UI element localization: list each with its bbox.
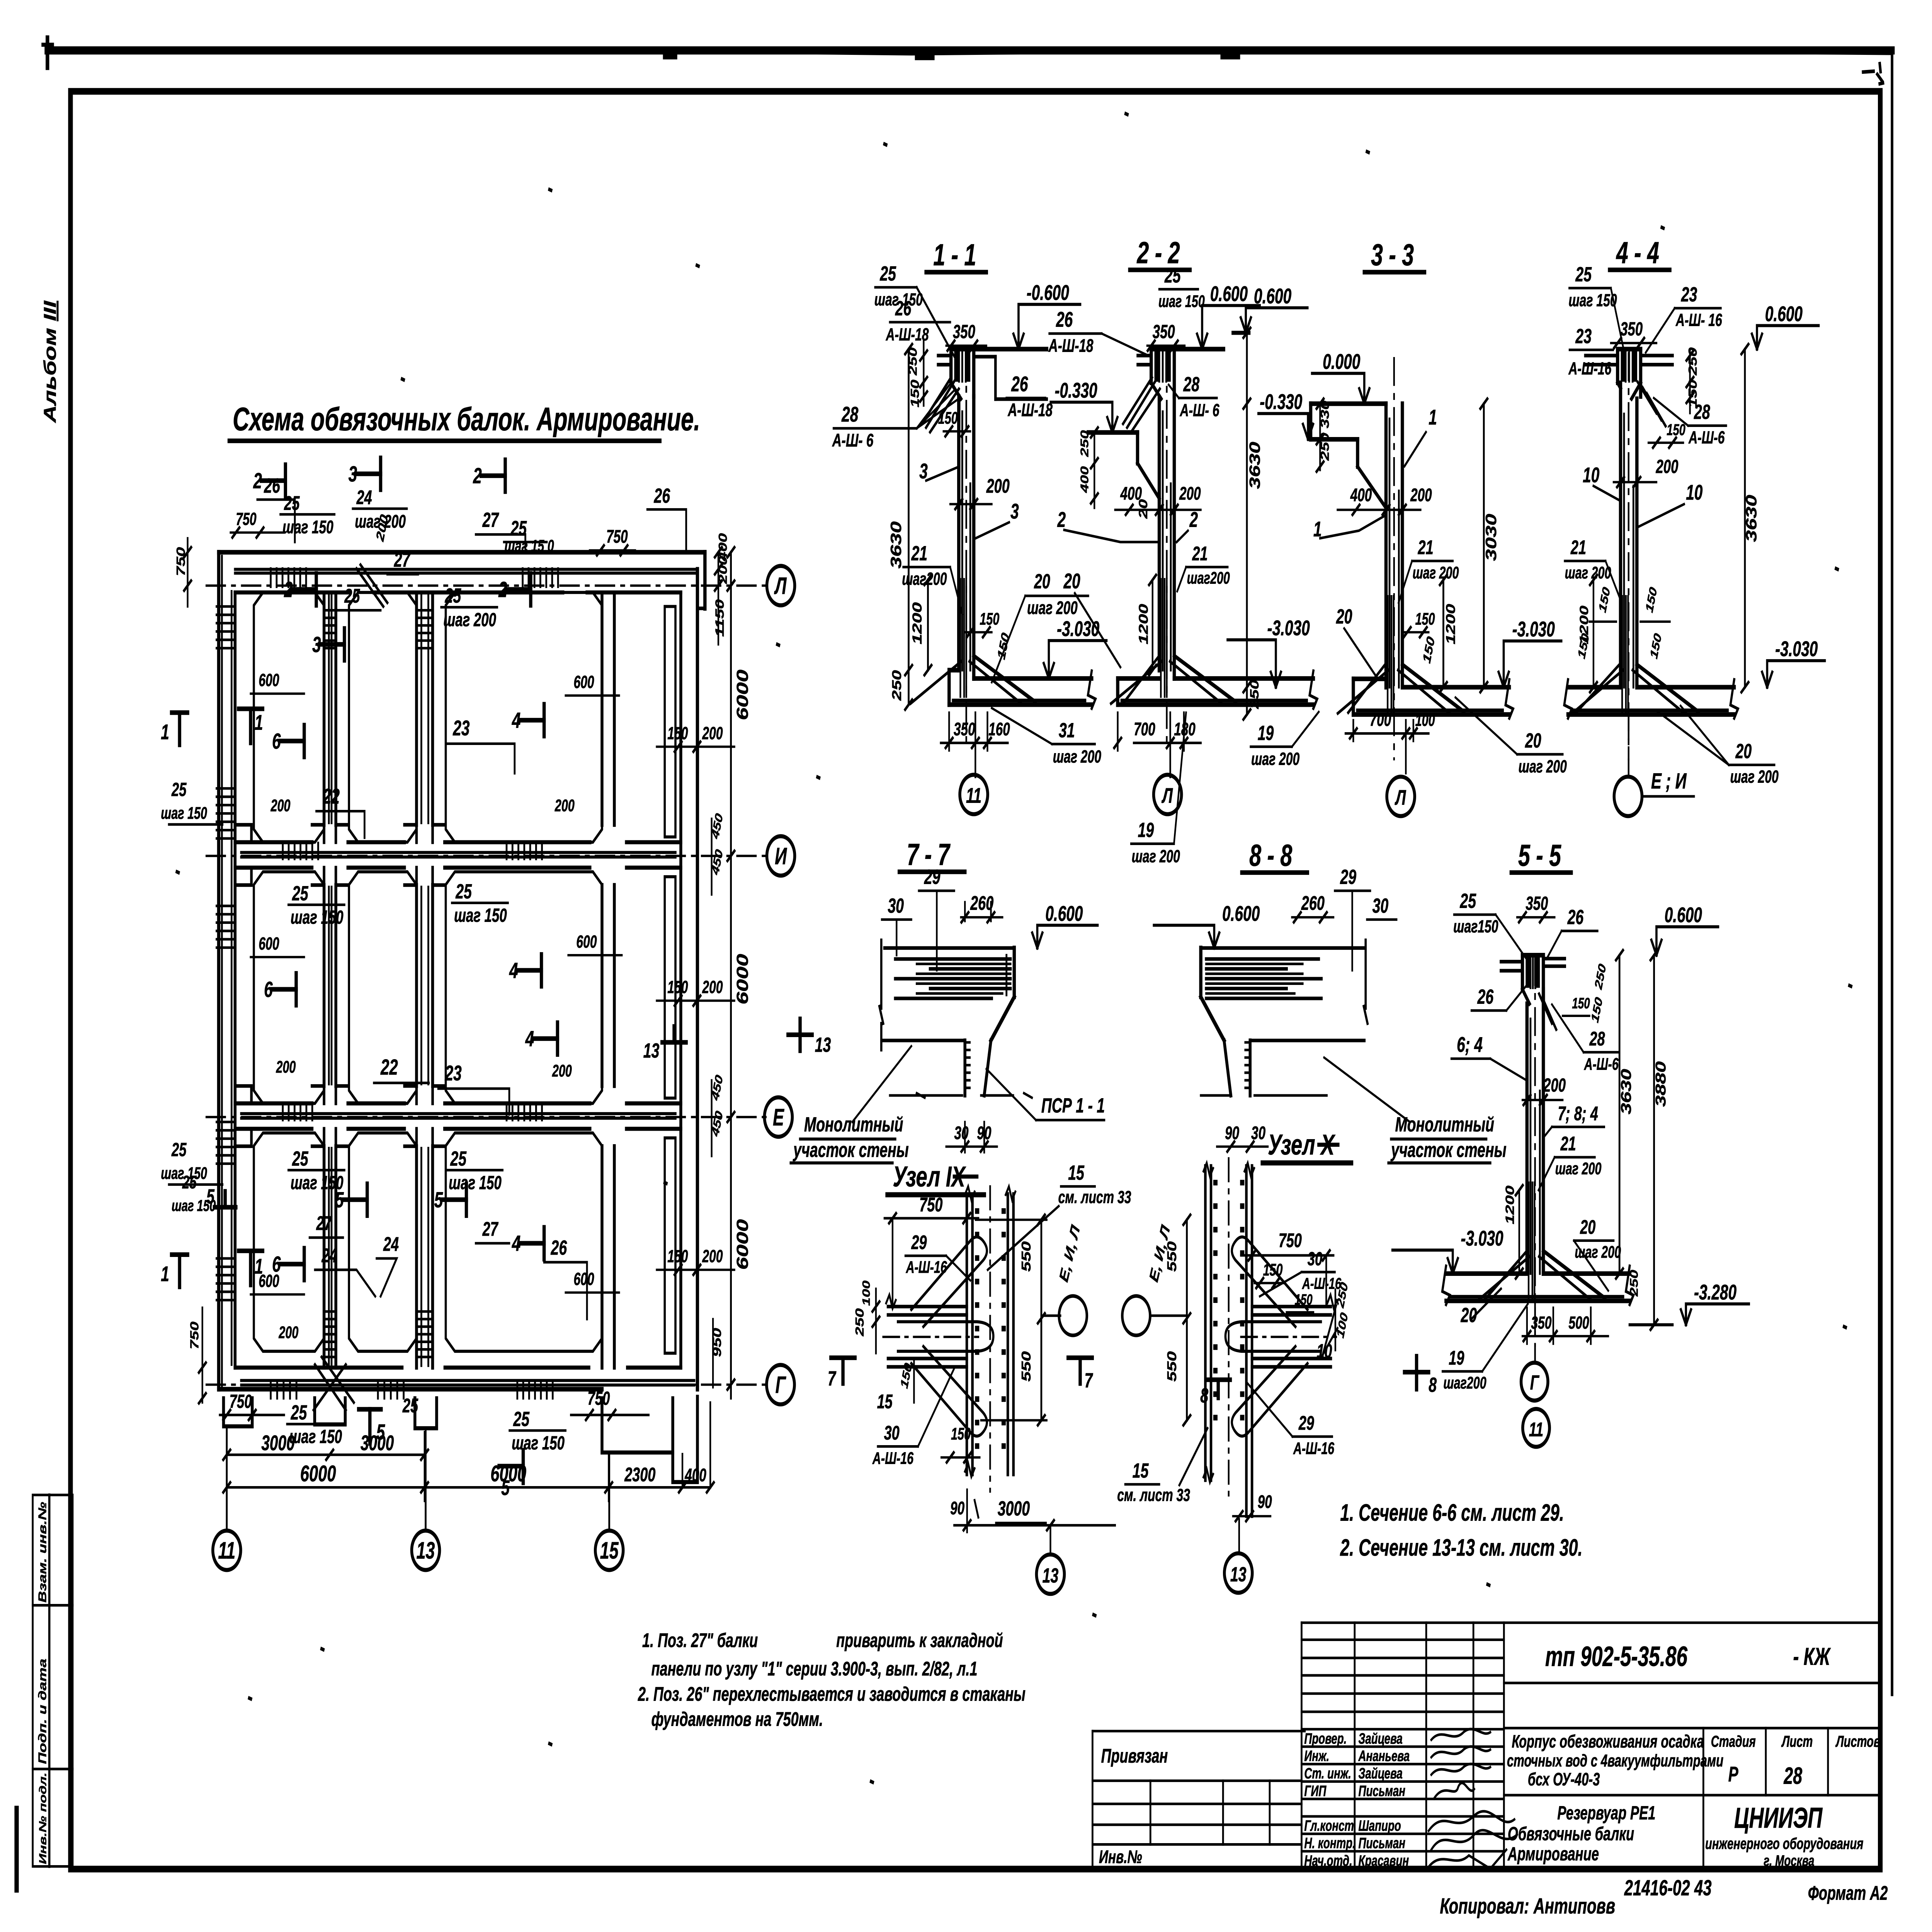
section 4-4 axis circle E I <box>1628 716 1630 777</box>
svg-text:150: 150 <box>908 379 921 407</box>
svg-text:100: 100 <box>860 1281 872 1306</box>
svg-text:Корпус обезвоживания осадка: Корпус обезвоживания осадка <box>1512 1732 1704 1752</box>
svg-text:21: 21 <box>1560 1133 1576 1155</box>
uzel X section marks 8 <box>1206 1380 1230 1398</box>
svg-text:шаг 150: шаг 150 <box>1158 292 1205 310</box>
svg-text:3: 3 <box>312 632 321 657</box>
svg-text:26: 26 <box>895 297 912 320</box>
svg-text:25: 25 <box>1460 889 1477 912</box>
svg-text:0.600: 0.600 <box>1254 284 1291 308</box>
plan outer wall contour <box>219 550 705 554</box>
section 5-5 axis circles <box>1534 1301 1536 1362</box>
svg-text:5: 5 <box>376 1420 385 1445</box>
level mark 0.600 <box>1651 940 1656 955</box>
svg-text:20: 20 <box>1580 1216 1595 1238</box>
rebar splice hatches E band <box>281 1104 284 1120</box>
svg-text:Е ; И: Е ; И <box>1651 769 1687 794</box>
svg-text:ПСР 1 - 1: ПСР 1 - 1 <box>1041 1094 1105 1117</box>
svg-text:29: 29 <box>924 865 940 888</box>
svg-text:А-Ш-16: А-Ш-16 <box>1293 1439 1334 1458</box>
svg-text:1. Сечение 6-6 см. лист 29: 1. Сечение 6-6 см. лист 29. <box>1340 1500 1564 1526</box>
svg-text:25: 25 <box>291 1401 308 1424</box>
svg-text:шаг 150: шаг 150 <box>291 907 344 928</box>
svg-text:150: 150 <box>1415 609 1435 628</box>
svg-text:30: 30 <box>888 894 904 917</box>
svg-text:А-Ш-18: А-Ш-18 <box>1048 335 1094 356</box>
svg-text:1200: 1200 <box>1503 1185 1517 1225</box>
svg-text:1: 1 <box>161 1262 169 1286</box>
uzel X panel strip <box>1205 1166 1211 1480</box>
svg-text:-0.330: -0.330 <box>1055 379 1097 403</box>
svg-text:24: 24 <box>383 1233 399 1255</box>
level mark 0.600 <box>1209 933 1214 948</box>
svg-text:350: 350 <box>954 719 975 739</box>
svg-text:30: 30 <box>1308 1248 1323 1269</box>
svg-text:26: 26 <box>1567 905 1584 929</box>
svg-text:21416-02 43: 21416-02 43 <box>1624 1876 1712 1900</box>
svg-text:Альбом III: Альбом III <box>40 300 60 424</box>
svg-text:750: 750 <box>919 1194 943 1216</box>
level mark 0.000 <box>1359 388 1364 403</box>
section mark 5 <box>367 1409 372 1443</box>
svg-text:2. Поз. 26" перехлестывается: 2. Поз. 26" перехлестывается и заводится… <box>638 1684 1026 1706</box>
level mark -0.330 <box>1303 424 1308 439</box>
svg-text:см. лист 33: см. лист 33 <box>1117 1486 1190 1505</box>
svg-text:Схема обвязочных балок. Армиро: Схема обвязочных балок. Армирование. <box>233 401 700 437</box>
svg-text:550: 550 <box>1019 1241 1034 1272</box>
svg-text:инженерного оборудования: инженерного оборудования <box>1705 1835 1863 1852</box>
svg-text:260: 260 <box>1301 892 1325 914</box>
svg-text:150: 150 <box>1263 1260 1283 1279</box>
svg-text:см. лист 33: см. лист 33 <box>1058 1188 1131 1207</box>
svg-text:150: 150 <box>951 1424 971 1443</box>
svg-text:Л: Л <box>1395 786 1406 810</box>
section mark 2 <box>261 478 285 483</box>
svg-text:26: 26 <box>264 474 280 497</box>
svg-text:шаг150: шаг150 <box>1453 917 1498 937</box>
svg-text:750: 750 <box>606 526 628 547</box>
svg-text:27: 27 <box>394 548 411 571</box>
svg-text:20: 20 <box>1525 729 1541 752</box>
svg-text:31: 31 <box>1059 718 1075 742</box>
svg-text:шаг200: шаг200 <box>1443 1373 1486 1392</box>
svg-text:21: 21 <box>911 541 927 565</box>
svg-text:200: 200 <box>702 724 723 743</box>
svg-text:А-Ш- 16: А-Ш- 16 <box>1675 311 1722 330</box>
svg-text:участок стены: участок стены <box>793 1138 909 1161</box>
svg-text:Ст. инж.: Ст. инж. <box>1304 1765 1351 1782</box>
svg-text:шаг 150: шаг 150 <box>172 1197 216 1214</box>
left stamp boxes <box>33 1495 73 1866</box>
svg-text:2300: 2300 <box>624 1464 655 1486</box>
section 1-1 beam <box>951 347 974 351</box>
svg-text:24: 24 <box>321 1245 337 1267</box>
section 4-4 haunch bars <box>1631 383 1641 399</box>
svg-text:25: 25 <box>171 779 187 800</box>
svg-text:400: 400 <box>1078 466 1091 493</box>
section 5 marks <box>214 1191 236 1207</box>
level mark 0.600 <box>1752 334 1757 349</box>
section 2-2 haunch bars <box>1151 383 1161 399</box>
axis circle 11 <box>213 1531 241 1570</box>
section 1-1 left dims <box>907 349 910 704</box>
svg-text:29: 29 <box>1298 1412 1314 1434</box>
title block signature grid <box>1301 1623 1828 1869</box>
section 5-5 <box>1393 838 1749 1447</box>
svg-text:23: 23 <box>1681 282 1697 306</box>
section 8-8 beam band <box>1364 940 1367 1024</box>
svg-text:-3.030: -3.030 <box>1461 1227 1503 1250</box>
uzel IX right dims <box>1040 1220 1043 1420</box>
section 4-4 wall <box>1618 383 1623 687</box>
svg-text:2: 2 <box>473 464 482 488</box>
level mark -3.030 <box>1762 672 1767 687</box>
svg-text:шаг 150: шаг 150 <box>1568 291 1617 310</box>
svg-text:6000: 6000 <box>300 1461 336 1486</box>
svg-text:-0.330: -0.330 <box>1260 390 1302 414</box>
svg-text:-3.030: -3.030 <box>1512 618 1555 641</box>
section 3-3 bottom dims <box>1345 732 1429 735</box>
svg-text:23: 23 <box>1575 324 1592 347</box>
svg-text:11: 11 <box>966 784 981 808</box>
section mark 6 <box>272 987 296 992</box>
scan mark bottom left <box>14 1809 20 1889</box>
svg-text:400: 400 <box>685 1465 707 1485</box>
svg-text:150: 150 <box>667 978 688 997</box>
svg-text:200: 200 <box>270 796 291 815</box>
plan bottom wall protrusions <box>224 1398 252 1427</box>
svg-text:шаг 200: шаг 200 <box>1251 750 1299 769</box>
axis circle Л <box>767 566 795 605</box>
scan right edge line <box>1890 51 1894 1694</box>
svg-text:25: 25 <box>880 262 897 285</box>
svg-text:150: 150 <box>667 1247 688 1266</box>
svg-text:Монолитный: Монолитный <box>804 1113 903 1136</box>
svg-text:23: 23 <box>445 1061 462 1085</box>
svg-text:шаг 150: шаг 150 <box>449 1172 502 1193</box>
axis circle И <box>767 836 795 876</box>
svg-text:19: 19 <box>1138 818 1154 841</box>
svg-text:шаг 150: шаг 150 <box>289 1426 342 1447</box>
section 5-5 footing <box>1446 1299 1629 1303</box>
svg-text:330: 330 <box>1318 400 1331 428</box>
section 1-1 footing <box>949 702 1092 707</box>
section 1-1 wall <box>956 396 961 670</box>
section mark 4 <box>520 1241 544 1245</box>
svg-text:27: 27 <box>482 508 500 531</box>
svg-text:Обвязочные балки: Обвязочные балки <box>1508 1823 1634 1844</box>
dim chain 6000/6000/2300/400 <box>227 1486 710 1489</box>
svg-text:шаг 200: шаг 200 <box>1730 767 1779 787</box>
plan interior wall band <box>235 1101 681 1105</box>
uzel IX middle hairpin <box>898 1322 993 1352</box>
svg-text:6: 6 <box>272 729 281 754</box>
svg-text:1: 1 <box>161 720 169 744</box>
svg-text:0.000: 0.000 <box>1323 350 1360 374</box>
svg-text:А-Ш- 6: А-Ш- 6 <box>1180 401 1219 420</box>
axis dash line L <box>206 584 767 587</box>
section 8-8 <box>1154 838 1506 1163</box>
section 1-1 axis circle 11 <box>960 775 988 814</box>
svg-text:ЦНИИЭП: ЦНИИЭП <box>1734 1802 1823 1834</box>
svg-text:Стадия: Стадия <box>1711 1732 1756 1750</box>
svg-text:350: 350 <box>1531 1313 1551 1333</box>
svg-text:25: 25 <box>182 1172 197 1192</box>
uzel IX detail <box>828 1160 1131 1594</box>
svg-text:3000: 3000 <box>998 1497 1030 1520</box>
section 3-3 axis circle L <box>1387 777 1415 816</box>
svg-text:Гл.конст: Гл.конст <box>1304 1817 1354 1834</box>
svg-text:фундаментов на 750мм.: фундаментов на 750мм. <box>651 1708 823 1730</box>
section 2-2 wall <box>1157 498 1162 670</box>
svg-text:Н. контр.: Н. контр. <box>1304 1835 1355 1852</box>
svg-text:Г: Г <box>776 1372 787 1398</box>
svg-text:750: 750 <box>174 547 188 576</box>
svg-text:26: 26 <box>1011 372 1028 396</box>
svg-text:3630: 3630 <box>1618 1069 1634 1114</box>
uzel IX lower diagonal hairpin <box>911 1346 987 1436</box>
rebar splice hatches left wall <box>216 605 235 608</box>
svg-text:20: 20 <box>1034 570 1050 593</box>
svg-text:5 - 5: 5 - 5 <box>1518 838 1561 872</box>
section mark 5 <box>442 1197 466 1202</box>
svg-text:15: 15 <box>877 1391 893 1413</box>
svg-text:Ананьева: Ананьева <box>1358 1748 1410 1765</box>
level mark 0.600 <box>1241 318 1246 333</box>
svg-text:Подп. и дата: Подп. и дата <box>36 1659 49 1764</box>
svg-text:3630: 3630 <box>1247 442 1263 489</box>
axis circle 15 <box>595 1531 623 1570</box>
svg-text:А-Ш-6: А-Ш-6 <box>1584 1054 1619 1073</box>
level mark -3.030 <box>1044 663 1049 679</box>
section 3-3 <box>1228 238 1567 816</box>
svg-text:20: 20 <box>1063 570 1080 593</box>
svg-text:25: 25 <box>450 1147 467 1170</box>
svg-text:Письман: Письман <box>1359 1835 1405 1852</box>
svg-text:6000: 6000 <box>733 1219 752 1270</box>
svg-text:2. Сечение 13-13 см. лист: 2. Сечение 13-13 см. лист 30. <box>1340 1535 1583 1561</box>
section 1-1 top slab lines <box>951 347 1047 351</box>
svg-text:750: 750 <box>230 1391 252 1412</box>
svg-text:1. Поз. 27" балки: 1. Поз. 27" балки <box>642 1629 758 1651</box>
svg-text:г. Москва: г. Москва <box>1764 1852 1814 1869</box>
svg-text:Инж.: Инж. <box>1304 1748 1329 1765</box>
svg-text:0.600: 0.600 <box>1765 302 1803 326</box>
svg-text:1 - 1: 1 - 1 <box>933 238 976 272</box>
svg-text:1150: 1150 <box>713 599 726 637</box>
privyazan box <box>1092 1731 1304 1869</box>
svg-text:4 - 4: 4 - 4 <box>1616 236 1659 270</box>
level mark -3.030 <box>1498 672 1503 687</box>
svg-text:5: 5 <box>434 1188 443 1213</box>
svg-text:3880: 3880 <box>1652 1061 1668 1107</box>
section 3-3 right chain <box>1483 404 1485 687</box>
svg-text:90: 90 <box>1258 1492 1272 1512</box>
rebar splice hatches top band <box>269 568 272 587</box>
svg-text:250: 250 <box>1628 1270 1640 1297</box>
plan bottom wall <box>235 1366 681 1370</box>
svg-text:0.600: 0.600 <box>1222 902 1260 925</box>
svg-text:200: 200 <box>702 978 723 997</box>
svg-text:26: 26 <box>551 1236 567 1259</box>
section mark 4 <box>533 1036 557 1041</box>
svg-text:22: 22 <box>323 785 340 808</box>
svg-text:Формат А2: Формат А2 <box>1808 1883 1888 1905</box>
svg-text:-0.600: -0.600 <box>1027 281 1069 304</box>
svg-text:250: 250 <box>1248 680 1261 709</box>
svg-text:8 - 8: 8 - 8 <box>1249 838 1292 872</box>
section 8-8 wall stem <box>1248 1041 1252 1095</box>
plan interior wall band <box>235 840 681 844</box>
svg-text:200: 200 <box>702 1247 723 1266</box>
svg-text:Инв.№ подл.: Инв.№ подл. <box>37 1772 48 1864</box>
svg-text:25: 25 <box>402 1395 418 1417</box>
svg-text:Р: Р <box>1728 1763 1738 1786</box>
section mark 2 <box>507 587 531 592</box>
svg-text:550: 550 <box>1165 1351 1179 1382</box>
svg-text:6000: 6000 <box>733 954 752 1005</box>
svg-text:Листов: Листов <box>1835 1732 1880 1750</box>
svg-text:25: 25 <box>1164 264 1181 287</box>
svg-text:13: 13 <box>1230 1563 1247 1586</box>
svg-text:4: 4 <box>509 958 518 983</box>
svg-text:150: 150 <box>1572 995 1590 1012</box>
svg-text:Г: Г <box>1530 1371 1539 1394</box>
svg-text:23: 23 <box>452 717 469 740</box>
svg-text:250: 250 <box>1318 433 1331 461</box>
svg-text:29: 29 <box>1340 865 1357 888</box>
section marks 1 <box>238 709 262 743</box>
svg-text:200: 200 <box>552 1061 572 1080</box>
svg-text:шаг 150: шаг 150 <box>291 1172 344 1193</box>
svg-text:21: 21 <box>1192 543 1208 565</box>
svg-text:А-Ш-6: А-Ш-6 <box>1688 428 1725 447</box>
svg-text:Л: Л <box>774 573 787 599</box>
svg-text:А-Ш-18: А-Ш-18 <box>886 325 929 345</box>
svg-text:4: 4 <box>525 1027 534 1051</box>
signature squiggles <box>1429 1729 1517 1869</box>
plan right wall lines <box>679 592 683 1367</box>
svg-text:Армирование: Армирование <box>1507 1844 1599 1864</box>
svg-text:шаг 150: шаг 150 <box>282 517 333 537</box>
svg-text:Е: Е <box>773 1104 784 1131</box>
section mark 3 <box>320 642 344 647</box>
svg-text:Лист: Лист <box>1781 1732 1813 1750</box>
svg-text:11: 11 <box>218 1537 236 1564</box>
level mark -0.600 <box>1014 334 1019 349</box>
section mark 3 <box>357 471 381 476</box>
svg-text:шаг 200: шаг 200 <box>1413 563 1459 582</box>
svg-text:160: 160 <box>988 719 1010 739</box>
svg-text:13: 13 <box>643 1039 660 1062</box>
svg-text:шаг 150: шаг 150 <box>512 1432 565 1454</box>
svg-text:шаг200: шаг200 <box>1187 568 1230 587</box>
axis circle Е <box>764 1097 792 1137</box>
svg-text:шаг 200: шаг 200 <box>1027 597 1078 618</box>
svg-text:Взам. инв.№: Взам. инв.№ <box>36 1502 49 1603</box>
svg-text:22: 22 <box>380 1055 398 1080</box>
section 4-4 <box>1564 236 1825 816</box>
svg-text:250: 250 <box>889 670 904 701</box>
svg-text:участок стены: участок стены <box>1391 1138 1507 1161</box>
svg-text:Зайцева: Зайцева <box>1359 1765 1403 1782</box>
svg-text:25: 25 <box>344 585 361 607</box>
section mark 2 <box>292 587 316 592</box>
svg-text:150: 150 <box>980 609 999 628</box>
svg-text:Резервуар РЕ1: Резервуар РЕ1 <box>1557 1803 1655 1823</box>
svg-text:А-Ш-18: А-Ш-18 <box>1007 400 1053 420</box>
svg-text:2: 2 <box>1189 508 1198 532</box>
svg-text:13: 13 <box>1043 1564 1059 1587</box>
level mark -0.330 <box>1107 417 1112 432</box>
svg-text:6000: 6000 <box>733 670 752 720</box>
svg-text:19: 19 <box>1449 1347 1464 1369</box>
svg-text:7; 8; 4: 7; 8; 4 <box>1558 1103 1598 1125</box>
uzel X circle 13 <box>1225 1553 1252 1593</box>
svg-text:И: И <box>775 843 787 869</box>
section 5-5 wall <box>1525 1004 1529 1274</box>
corner diagonal rebars <box>357 565 388 607</box>
svg-text:1: 1 <box>255 711 263 735</box>
svg-text:Л: Л <box>1162 784 1173 808</box>
svg-text:600: 600 <box>573 1270 594 1289</box>
svg-text:3630: 3630 <box>888 521 905 568</box>
level mark -3.030 <box>1448 1259 1453 1274</box>
svg-text:20: 20 <box>1735 739 1752 762</box>
svg-text:10: 10 <box>1583 463 1599 487</box>
svg-text:Нач.отд.: Нач.отд. <box>1304 1852 1352 1869</box>
svg-text:750: 750 <box>188 1321 201 1349</box>
svg-text:Провер.: Провер. <box>1304 1730 1347 1747</box>
svg-text:шаг200: шаг200 <box>902 570 947 589</box>
svg-text:бсх ОУ-40-3: бсх ОУ-40-3 <box>1528 1770 1600 1789</box>
right dim chains <box>730 552 732 1398</box>
svg-text:0.600: 0.600 <box>1665 903 1702 927</box>
svg-text:шаг 200: шаг 200 <box>1565 563 1611 582</box>
section 4-4 beam <box>1617 347 1641 351</box>
svg-text:Инв.№: Инв.№ <box>1099 1847 1142 1867</box>
svg-text:шаг 200: шаг 200 <box>1132 847 1180 866</box>
section 2-2 <box>1048 236 1317 866</box>
section 13 marks <box>662 1026 686 1042</box>
svg-text:600: 600 <box>573 673 594 692</box>
svg-text:27: 27 <box>316 1213 333 1235</box>
svg-text:Зайцева: Зайцева <box>1359 1730 1403 1747</box>
section 5-5 haunch <box>1522 989 1529 1003</box>
svg-text:200: 200 <box>1543 1075 1566 1095</box>
section mark 4 <box>517 968 541 973</box>
svg-text:25: 25 <box>513 1407 530 1430</box>
svg-text:2: 2 <box>1057 508 1066 532</box>
svg-text:24: 24 <box>356 487 372 509</box>
svg-text:3630: 3630 <box>1743 495 1760 542</box>
handwritten page number -2 <box>1863 64 1883 84</box>
svg-text:100: 100 <box>1415 711 1435 729</box>
svg-text:шаг 200: шаг 200 <box>1519 757 1567 777</box>
svg-text:7: 7 <box>1085 1369 1094 1392</box>
svg-text:2: 2 <box>284 577 293 602</box>
svg-text:21: 21 <box>1570 537 1586 559</box>
svg-text:- КЖ: - КЖ <box>1793 1643 1831 1670</box>
svg-text:600: 600 <box>259 934 279 954</box>
level mark 0.600 <box>1032 933 1037 948</box>
svg-text:А-Ш-16: А-Ш-16 <box>906 1258 947 1276</box>
svg-text:250: 250 <box>853 1308 866 1337</box>
svg-text:26: 26 <box>1056 308 1073 332</box>
svg-text:1200: 1200 <box>910 602 924 645</box>
svg-text:Красавин: Красавин <box>1359 1852 1409 1869</box>
svg-text:25: 25 <box>455 879 472 903</box>
